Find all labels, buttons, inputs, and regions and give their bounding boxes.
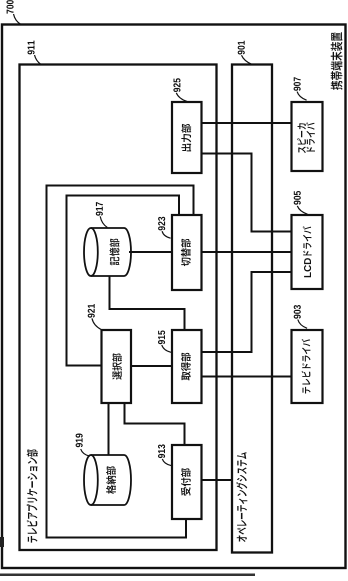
cylinder 919 container part bbox=[91, 455, 131, 505]
label 913 bbox=[158, 444, 165, 458]
label 919 bbox=[76, 434, 83, 448]
leader 925 bbox=[176, 93, 187, 102]
label 921 bbox=[88, 304, 95, 318]
box 907 speaker driver bbox=[292, 102, 323, 171]
wire 921-915 bbox=[131, 365, 172, 367]
text switching part bbox=[181, 239, 191, 266]
wire 915-903 bbox=[202, 376, 292, 378]
box 925 output part bbox=[172, 102, 202, 173]
wire path A 923-913 bbox=[47, 186, 194, 538]
leader 923 bbox=[162, 231, 171, 238]
text acquisition part bbox=[181, 353, 191, 381]
text output part bbox=[181, 124, 191, 152]
box 923 switching part bbox=[172, 215, 202, 290]
wire 913-921 bbox=[125, 403, 185, 445]
box 901 operating system bbox=[232, 65, 272, 553]
wire 917-923 bbox=[129, 251, 172, 253]
leader 901 bbox=[242, 55, 252, 64]
label 700 bbox=[6, 0, 13, 14]
leader 921 bbox=[92, 318, 101, 329]
text TV driver bbox=[302, 339, 311, 393]
box 905 LCD driver bbox=[292, 215, 323, 289]
scan artifact edge line (portrait bottom edge) bbox=[0, 574, 255, 577]
box 921 selection part bbox=[102, 330, 132, 403]
label 915 bbox=[158, 330, 165, 344]
leader 700 bbox=[14, 14, 22, 25]
box 913 reception part bbox=[172, 445, 202, 519]
text operating system bbox=[236, 452, 247, 542]
label 903 bbox=[294, 305, 301, 319]
wire 925-907 bbox=[202, 122, 292, 124]
leader 919 bbox=[81, 449, 90, 456]
leader 903 bbox=[298, 320, 307, 329]
wire path B 923-921 bbox=[67, 196, 180, 366]
leader 915 bbox=[162, 345, 171, 352]
label 923 bbox=[158, 217, 165, 231]
text selection part bbox=[112, 353, 122, 379]
label 925 bbox=[173, 78, 180, 92]
text storage part bbox=[110, 239, 120, 266]
text TV application part bbox=[27, 449, 38, 542]
text reception part bbox=[181, 468, 191, 496]
text mobile terminal device bbox=[331, 32, 343, 90]
label 907 bbox=[294, 77, 301, 91]
wire 917-915 bbox=[110, 276, 185, 330]
box 915 acquisition part bbox=[172, 330, 202, 403]
wire 915-905 bbox=[202, 272, 292, 352]
text LCD driver bbox=[303, 226, 312, 277]
label 917 bbox=[96, 202, 103, 216]
wire 919-921 bbox=[108, 403, 110, 455]
text container part bbox=[106, 466, 116, 494]
leader 907 bbox=[297, 92, 307, 101]
box 911 TV application part bbox=[20, 65, 217, 551]
wire 925-905 bbox=[202, 154, 292, 232]
leader 913 bbox=[162, 459, 171, 466]
cylinder 917 storage part bbox=[91, 228, 131, 276]
label 905 bbox=[294, 191, 301, 205]
text speaker driver line1 bbox=[297, 123, 306, 153]
text speaker driver line2 bbox=[306, 122, 315, 151]
wire 913-901 bbox=[202, 479, 233, 481]
wire 923-905 bbox=[202, 251, 292, 253]
leader 911 bbox=[35, 55, 42, 65]
label 901 bbox=[238, 41, 245, 55]
label 911 bbox=[27, 41, 34, 55]
scan artifact blob near 911 top-left (portrait bottom-left) bbox=[0, 537, 4, 547]
leader 917 bbox=[100, 216, 107, 227]
leader 905 bbox=[297, 206, 307, 214]
box 903 TV driver bbox=[292, 330, 323, 403]
